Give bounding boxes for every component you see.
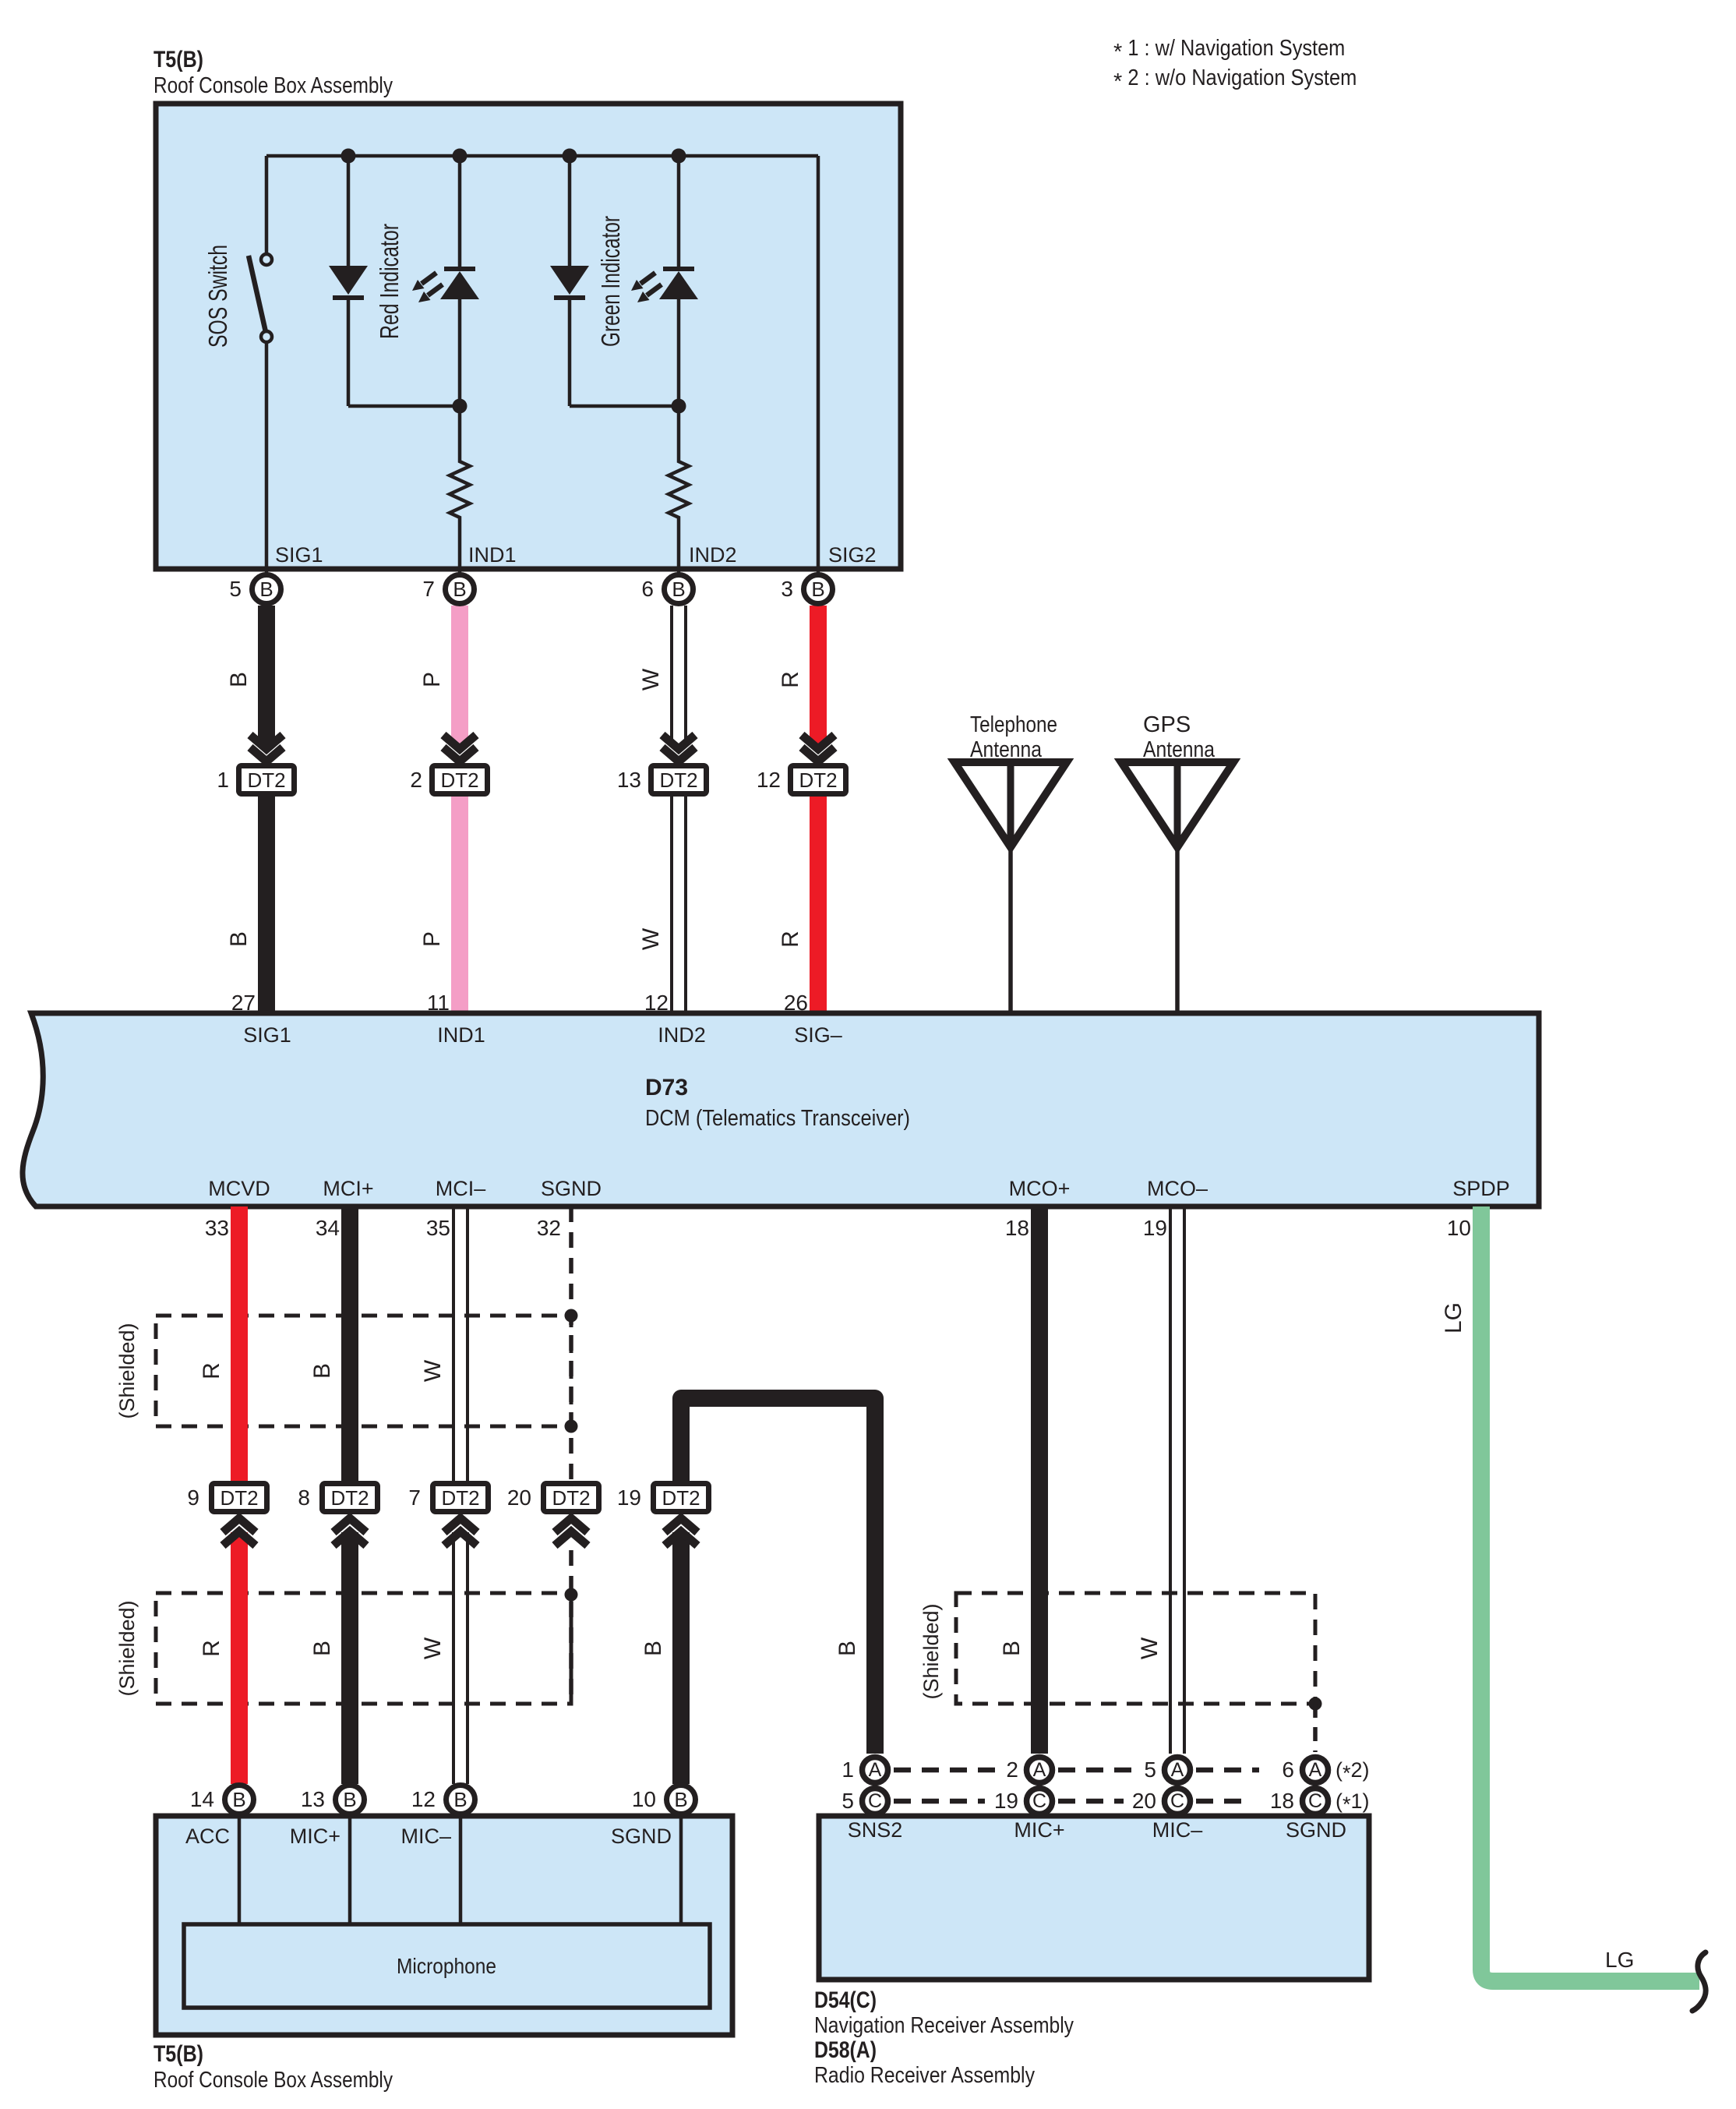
svg-text:MCO–: MCO–	[1147, 1177, 1208, 1200]
svg-text:MCO+: MCO+	[1009, 1177, 1071, 1200]
svg-text:MIC–: MIC–	[1152, 1818, 1203, 1842]
svg-text:6: 6	[641, 577, 654, 601]
junction dot bus/diode1	[341, 149, 356, 164]
pin 12(B) MIC-	[411, 1786, 475, 1814]
svg-text:C: C	[1170, 1790, 1184, 1812]
svg-text:A: A	[1033, 1759, 1046, 1781]
svg-text:1: 1	[217, 768, 229, 792]
wire SGND shield drain upper	[569, 1206, 573, 1481]
divider ACC	[238, 1818, 242, 1924]
divider MIC-	[459, 1818, 463, 1924]
junction dot red pair	[453, 399, 468, 414]
connector 13 DT2 (IND2)	[617, 735, 709, 797]
pin 2(A) nav	[1006, 1757, 1052, 1783]
pin 6(B) IND2	[641, 575, 693, 604]
wire MCVD R upper segment	[231, 1206, 248, 1481]
svg-text:IND1: IND1	[437, 1023, 485, 1047]
wire SIG2 R lower segment	[810, 797, 827, 1013]
svg-text:32: 32	[537, 1216, 561, 1240]
svg-text:* 2 : w/o Navigation System: * 2 : w/o Navigation System	[1113, 65, 1357, 94]
svg-text:W: W	[638, 668, 664, 691]
wire switch upper	[265, 156, 269, 254]
svg-text:DT2: DT2	[330, 1486, 369, 1510]
svg-text:20: 20	[507, 1485, 531, 1510]
dashed link A row	[894, 1768, 1259, 1773]
LED red indicator	[412, 156, 479, 408]
svg-text:(*2): (*2)	[1336, 1758, 1370, 1785]
svg-text:SNS2: SNS2	[848, 1818, 903, 1842]
svg-text:A: A	[869, 1759, 882, 1781]
svg-text:Navigation Receiver Assembly: Navigation Receiver Assembly	[814, 2013, 1074, 2038]
connector 7 DT2 (MCI-)	[408, 1481, 491, 1546]
resistor red indicator	[450, 406, 470, 574]
telephone antenna	[954, 762, 1067, 1013]
junction dot shield upper top	[565, 1309, 578, 1323]
wire MCI+ B lower segment	[341, 1532, 358, 1784]
wire join red pair	[348, 404, 460, 408]
svg-text:Microphone: Microphone	[397, 1954, 496, 1978]
svg-text:LG: LG	[1605, 1948, 1634, 1972]
svg-text:27: 27	[231, 991, 256, 1015]
svg-text:MCVD: MCVD	[208, 1177, 270, 1200]
wire IND2 W lower segment	[672, 797, 686, 1013]
wire SIG2 internal	[817, 156, 820, 574]
wire IND2 W upper segment	[672, 606, 686, 746]
pin 6(A) nav	[1282, 1757, 1328, 1783]
svg-text:DT2: DT2	[247, 768, 285, 792]
pin 18(C) nav	[1270, 1789, 1328, 1814]
wire bus top	[266, 154, 818, 158]
svg-text:14: 14	[190, 1787, 214, 1811]
svg-text:IND2: IND2	[689, 543, 737, 567]
svg-text:13: 13	[617, 768, 641, 792]
svg-text:B: B	[309, 1641, 335, 1656]
wire MCI- W lower segment	[453, 1532, 468, 1784]
connector 19 DT2 (SGND B)	[617, 1481, 711, 1546]
diode D1 (red indicator branch)	[329, 156, 368, 406]
svg-text:SGND: SGND	[541, 1177, 602, 1200]
wire SGND shield drain lower	[569, 1550, 573, 1704]
svg-text:D73: D73	[645, 1075, 688, 1100]
wire MCVD R lower segment	[231, 1532, 248, 1784]
junction dot green pair	[672, 399, 686, 414]
svg-text:DT2: DT2	[552, 1486, 590, 1510]
divider SGND	[679, 1818, 683, 1924]
wire MCO+ B segment	[1031, 1206, 1048, 1754]
box T5(B) Roof Console Box Assembly bottom	[156, 1816, 732, 2035]
svg-text:MCI–: MCI–	[436, 1177, 486, 1200]
svg-text:D54(C): D54(C)	[814, 1987, 877, 2013]
svg-text:B: B	[640, 1641, 666, 1656]
divider MIC+	[348, 1818, 352, 1924]
svg-text:Antenna: Antenna	[1143, 737, 1216, 762]
svg-text:SIG1: SIG1	[243, 1023, 291, 1047]
svg-text:C: C	[1032, 1790, 1046, 1812]
connector 2 DT2 (IND1)	[410, 735, 490, 797]
svg-text:(Shielded): (Shielded)	[115, 1600, 139, 1696]
svg-text:B: B	[453, 578, 466, 601]
pin 7(B) IND1	[422, 575, 474, 604]
svg-text:W: W	[1137, 1637, 1163, 1659]
junction dot shield right	[1309, 1697, 1322, 1711]
svg-text:P: P	[419, 931, 445, 947]
svg-text:B: B	[672, 578, 685, 601]
connector 9 DT2 (MCVD)	[187, 1481, 270, 1546]
svg-text:(*1): (*1)	[1336, 1789, 1370, 1816]
svg-text:DT2: DT2	[220, 1486, 258, 1510]
connector 12 DT2 (SIG2)	[757, 735, 849, 797]
switch SOS lower contact	[261, 331, 272, 342]
svg-text:SIG1: SIG1	[275, 543, 323, 567]
switch SOS upper contact	[261, 254, 272, 265]
svg-text:5: 5	[842, 1789, 854, 1813]
pin 5(C) nav	[842, 1789, 887, 1814]
diode D2 (green indicator branch)	[550, 156, 589, 406]
svg-text:SIG–: SIG–	[794, 1023, 842, 1047]
svg-text:MIC+: MIC+	[1014, 1818, 1064, 1842]
junction dot bus/LED1	[453, 149, 468, 164]
svg-text:9: 9	[187, 1485, 199, 1510]
svg-text:19: 19	[617, 1485, 641, 1510]
svg-text:Telephone: Telephone	[970, 712, 1057, 737]
pin 5(B) SIG1	[229, 575, 281, 604]
svg-text:T5(B): T5(B)	[153, 47, 203, 72]
svg-text:W: W	[420, 1637, 446, 1659]
svg-text:A: A	[1309, 1759, 1322, 1781]
svg-text:* 1 : w/ Navigation System: * 1 : w/ Navigation System	[1113, 36, 1345, 65]
svg-text:B: B	[453, 1788, 467, 1811]
svg-text:B: B	[226, 931, 252, 947]
svg-text:B: B	[834, 1641, 860, 1656]
shield box upper (MCVD/MCI+/MCI-)	[156, 1316, 571, 1426]
squiggle wire continuation	[1692, 1952, 1706, 2011]
shield box right (MCO+/MCO-)	[956, 1593, 1315, 1704]
wire switch lower to pin SIG1	[265, 342, 269, 574]
svg-text:D58(A): D58(A)	[814, 2037, 877, 2063]
svg-text:IND2: IND2	[658, 1023, 706, 1047]
svg-text:R: R	[199, 1640, 224, 1657]
svg-text:SGND: SGND	[611, 1825, 672, 1848]
svg-text:2: 2	[1006, 1757, 1018, 1782]
label Telephone Antenna	[970, 712, 1057, 762]
svg-text:SIG2: SIG2	[828, 543, 877, 567]
pin 10(B) SGND	[632, 1786, 696, 1814]
svg-text:P: P	[419, 672, 445, 687]
svg-text:B: B	[232, 1788, 245, 1811]
svg-text:19: 19	[1143, 1216, 1167, 1240]
svg-text:DT2: DT2	[662, 1486, 700, 1510]
svg-text:W: W	[638, 927, 664, 950]
wire SGND B lower segment (DT2 19 to pin 10)	[672, 1532, 690, 1784]
svg-text:DT2: DT2	[659, 768, 697, 792]
svg-text:C: C	[1308, 1790, 1322, 1812]
box D54(C)/D58(A) receiver assembly	[819, 1816, 1369, 1980]
pin 20(C) nav	[1132, 1789, 1191, 1814]
svg-text:DT2: DT2	[441, 1486, 479, 1510]
wire join green pair	[570, 404, 679, 408]
svg-text:18: 18	[1270, 1789, 1294, 1813]
svg-text:B: B	[999, 1641, 1025, 1656]
svg-text:2: 2	[410, 768, 422, 792]
svg-text:MIC–: MIC–	[400, 1825, 451, 1848]
svg-text:13: 13	[301, 1787, 325, 1811]
connector 1 DT2 (SIG1)	[217, 735, 297, 797]
svg-text:12: 12	[411, 1787, 436, 1811]
svg-text:7: 7	[422, 577, 435, 601]
svg-text:10: 10	[1447, 1216, 1471, 1240]
wire MCO- W segment	[1170, 1206, 1184, 1754]
svg-text:C: C	[868, 1790, 882, 1812]
svg-text:Roof Console Box Assembly: Roof Console Box Assembly	[153, 2068, 393, 2093]
wire MCI- W upper segment	[453, 1206, 468, 1481]
pin 1(A) nav	[842, 1757, 887, 1783]
box T5(B) Roof Console Box Assembly	[156, 104, 901, 569]
svg-text:26: 26	[784, 991, 808, 1015]
junction dot bus/diode2	[563, 149, 577, 164]
svg-text:Red Indicator: Red Indicator	[375, 224, 404, 339]
svg-text:SPDP: SPDP	[1452, 1177, 1510, 1200]
svg-text:GPS: GPS	[1143, 712, 1191, 737]
svg-text:B: B	[811, 578, 824, 601]
svg-text:DT2: DT2	[799, 768, 837, 792]
junction dot bus/LED2	[672, 149, 686, 164]
svg-text:B: B	[259, 578, 273, 601]
wire SIG1 B upper segment	[258, 606, 275, 746]
svg-text:18: 18	[1005, 1216, 1029, 1240]
svg-text:34: 34	[316, 1216, 340, 1240]
svg-text:Radio Receiver Assembly: Radio Receiver Assembly	[814, 2063, 1035, 2088]
junction dot shield upper bottom	[565, 1420, 578, 1433]
resistor green indicator	[669, 406, 689, 574]
svg-text:11: 11	[427, 991, 450, 1015]
pin 14(B) ACC	[190, 1786, 254, 1814]
GPS antenna	[1121, 762, 1233, 1013]
dashed link C row	[894, 1799, 1250, 1804]
svg-text:R: R	[778, 931, 803, 948]
svg-text:B: B	[309, 1363, 335, 1379]
svg-text:SGND: SGND	[1286, 1818, 1346, 1842]
box Microphone	[184, 1924, 710, 2008]
wire SNS2 B U-run	[681, 1398, 875, 1754]
wire IND1 P upper segment	[451, 606, 468, 746]
svg-text:R: R	[199, 1362, 224, 1380]
svg-text:SOS Switch: SOS Switch	[203, 245, 232, 348]
svg-text:MIC+: MIC+	[290, 1825, 340, 1848]
svg-text:LG: LG	[1441, 1302, 1466, 1334]
svg-text:33: 33	[205, 1216, 229, 1240]
svg-text:5: 5	[1144, 1757, 1156, 1782]
svg-text:B: B	[226, 672, 252, 687]
pin 3(B) SIG2	[781, 575, 832, 604]
svg-text:(Shielded): (Shielded)	[115, 1323, 139, 1418]
pin 13(B) MIC+	[301, 1786, 365, 1814]
svg-text:T5(B): T5(B)	[153, 2041, 203, 2067]
svg-text:A: A	[1171, 1759, 1184, 1781]
svg-text:10: 10	[632, 1787, 656, 1811]
svg-text:12: 12	[757, 768, 781, 792]
svg-text:ACC: ACC	[185, 1825, 230, 1848]
connector 20 DT2 (SGND)	[507, 1481, 602, 1546]
svg-text:20: 20	[1132, 1789, 1156, 1813]
svg-text:MCI+: MCI+	[323, 1177, 373, 1200]
svg-text:7: 7	[408, 1485, 421, 1510]
wire MCI+ B upper segment	[341, 1206, 358, 1481]
svg-text:6: 6	[1282, 1757, 1294, 1782]
LED green indicator	[631, 156, 698, 408]
switch SOS blade	[249, 256, 266, 332]
connector 8 DT2 (MCI+)	[298, 1481, 380, 1546]
box D73 DCM (Telematics Transceiver) band	[23, 1013, 1539, 1206]
svg-text:Green Indicator: Green Indicator	[596, 216, 625, 347]
svg-text:8: 8	[298, 1485, 310, 1510]
wire SPDP LG green	[1481, 1206, 1699, 1981]
svg-text:3: 3	[781, 577, 793, 601]
junction dot shield lower top	[565, 1588, 578, 1602]
svg-text:W: W	[420, 1359, 446, 1382]
svg-text:R: R	[778, 671, 803, 688]
wire SIG2 R upper segment	[810, 606, 827, 746]
svg-text:Roof Console Box Assembly: Roof Console Box Assembly	[153, 73, 393, 98]
svg-text:DCM (Telematics Transceiver): DCM (Telematics Transceiver)	[645, 1106, 910, 1131]
svg-text:19: 19	[994, 1789, 1018, 1813]
svg-text:12: 12	[644, 991, 669, 1015]
wire SGND dashed to pin 6A	[1313, 1704, 1318, 1752]
svg-text:B: B	[343, 1788, 356, 1811]
label GPS Antenna	[1143, 712, 1216, 762]
svg-text:IND1: IND1	[468, 543, 517, 567]
svg-text:B: B	[674, 1788, 687, 1811]
svg-text:5: 5	[229, 577, 242, 601]
svg-text:(Shielded): (Shielded)	[919, 1603, 943, 1699]
pin 5(A) nav	[1144, 1757, 1190, 1783]
wire IND1 P lower segment	[451, 797, 468, 1013]
svg-text:1: 1	[842, 1757, 854, 1782]
svg-text:DT2: DT2	[440, 768, 478, 792]
svg-text:Antenna: Antenna	[970, 737, 1043, 762]
svg-text:35: 35	[426, 1216, 450, 1240]
pin 19(C) nav	[994, 1789, 1053, 1814]
shield box lower (to microphone)	[156, 1593, 571, 1704]
wire SIG1 B lower segment	[258, 797, 275, 1013]
